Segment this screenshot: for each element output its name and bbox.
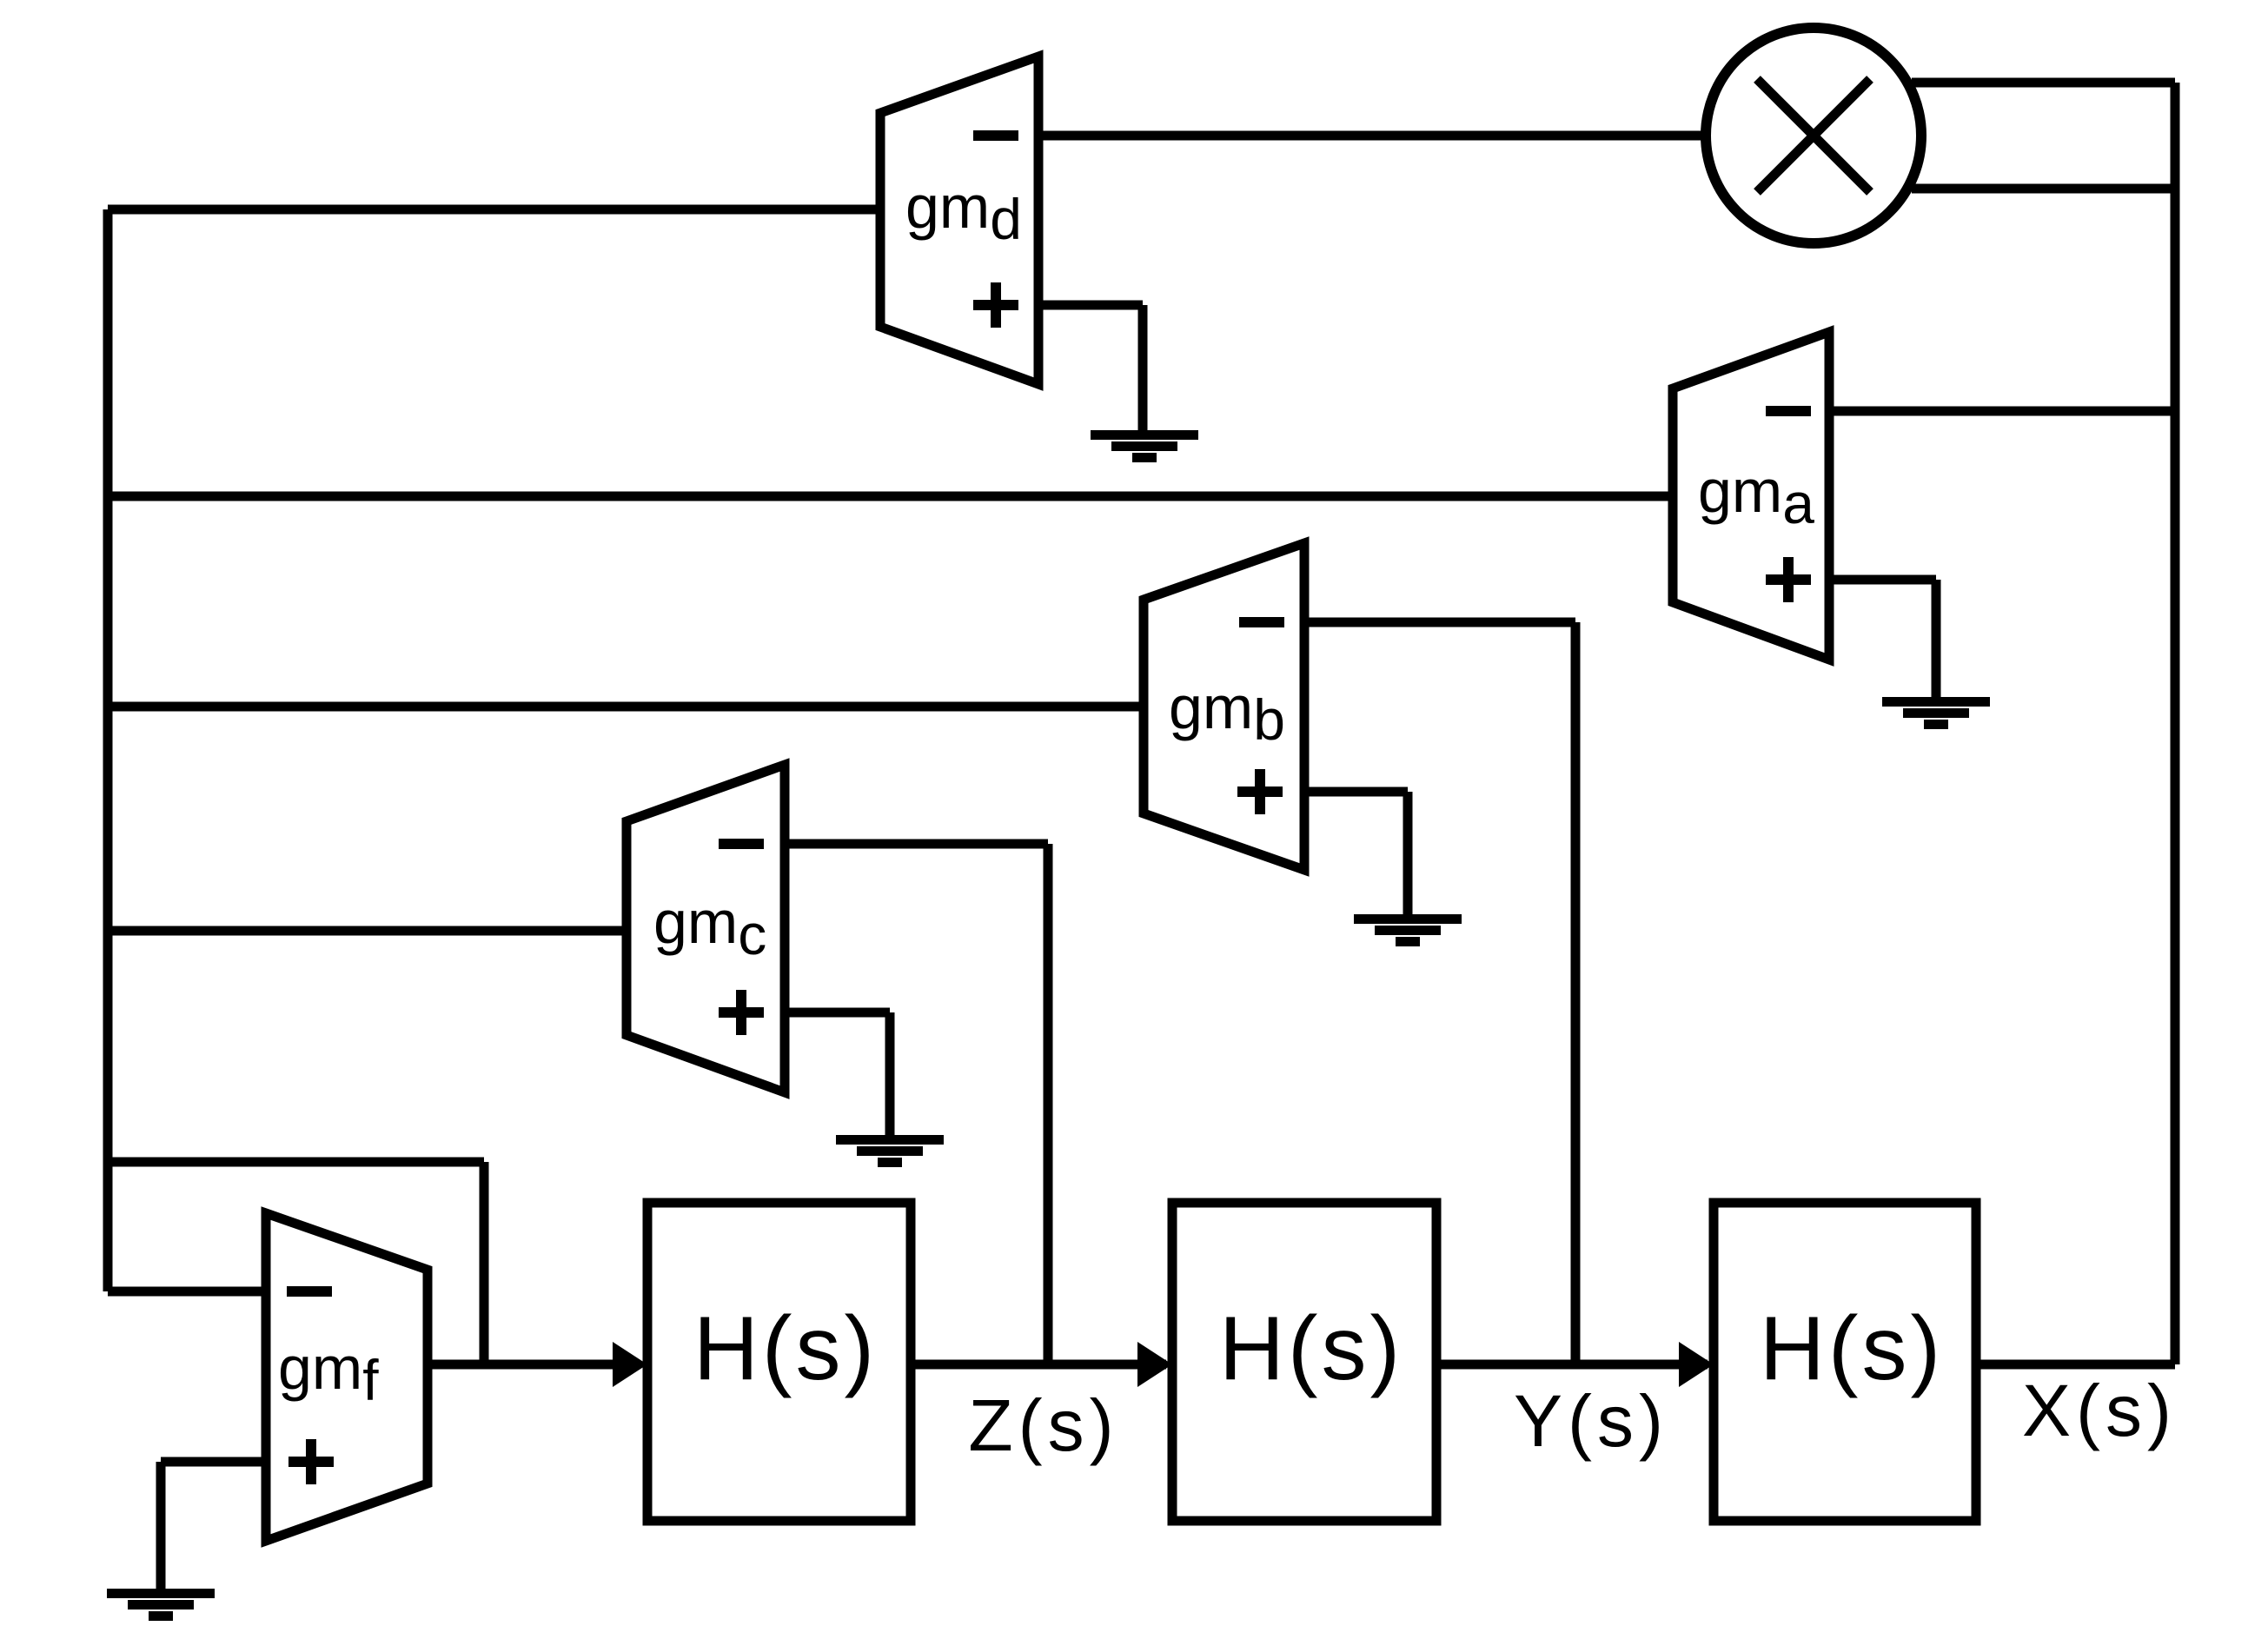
pin label minus of gm_c — [719, 839, 764, 849]
multiplier M1 circle — [1706, 28, 1921, 243]
pin label minus of gm_b — [1239, 617, 1284, 627]
wire: gm_c minus input horizontal — [785, 840, 1048, 849]
wire: gm_f plus ground stem — [156, 1462, 166, 1589]
wire: bus to gm_f minus input — [108, 1287, 266, 1297]
wire: gm_f output to H(s)1 — [428, 1360, 619, 1370]
svg-text:Z(s): Z(s) — [968, 1384, 1118, 1466]
op-amp OTA gm_d — [880, 56, 1038, 384]
wire: gm_b minus input horizontal — [1304, 618, 1575, 627]
wire: bus to gm_a output — [108, 492, 1673, 501]
svg-text:X(s): X(s) — [2022, 1370, 2177, 1451]
wire: gm_c plus ground stem — [885, 1012, 895, 1135]
arrowhead into H(s)2 — [1137, 1342, 1172, 1387]
pin label plus of gm_c — [719, 990, 764, 1035]
wire: H(s)3 output X(s) to right bus — [1976, 1360, 2175, 1370]
wire: gm_d minus input from multiplier — [1038, 131, 1708, 141]
wire: H(s)1 output Z(s) to H(s)2 — [911, 1360, 1166, 1370]
svg-text:H(s): H(s) — [1219, 1298, 1403, 1399]
wire: gm_c minus vertical to node Z(s) — [1044, 844, 1053, 1364]
op-amp OTA gm_f — [266, 1213, 428, 1541]
pin label plus of gm_f — [288, 1439, 334, 1484]
op-amp OTA gm_c — [627, 765, 785, 1092]
block H(s) second — [1172, 1203, 1436, 1521]
pin label minus of gm_a — [1766, 406, 1811, 416]
wire: H(s)2 output Y(s) to H(s)3 — [1436, 1360, 1708, 1370]
svg-text:H(s): H(s) — [1760, 1298, 1944, 1399]
wire: bus feedback horizontal — [108, 1158, 484, 1167]
wire: bus to gm_b output — [108, 702, 1144, 712]
ground (gm_a plus) — [1882, 697, 1990, 729]
wire: gm_c plus horizontal — [785, 1008, 890, 1018]
op-amp OTA gm_b — [1144, 543, 1304, 870]
svg-text:Y(s): Y(s) — [1514, 1380, 1668, 1462]
pin label plus of gm_a — [1766, 557, 1811, 602]
wire: gm_f plus input — [161, 1457, 266, 1467]
wire: gm_a minus input from right bus — [1829, 407, 2175, 416]
block H(s) third — [1714, 1203, 1976, 1521]
wire: bus to gm_d output — [108, 205, 880, 215]
wire: left summing bus vertical — [103, 209, 113, 1291]
multiplier M1 cross — [1757, 79, 1870, 192]
ground (gm_f plus) — [107, 1589, 215, 1621]
wire: gm_d plus horizontal — [1038, 301, 1143, 310]
wire: feedback vertical to H(s)1 input node — [480, 1162, 489, 1364]
wire: gm_d plus ground stem — [1138, 305, 1148, 430]
block H(s) first — [647, 1203, 911, 1521]
arrowhead into H(s)1 — [613, 1342, 647, 1387]
wire: gm_a plus ground stem — [1932, 580, 1941, 697]
wire: multiplier to right bus top — [1912, 78, 2175, 88]
wire: bus to gm_c output — [108, 926, 627, 936]
pin label minus of gm_f — [287, 1286, 332, 1297]
arrowhead into H(s)3 — [1679, 1342, 1714, 1387]
pin label plus of gm_d — [973, 282, 1018, 328]
wire: multiplier to right bus lower — [1912, 184, 2175, 194]
ground (gm_b plus) — [1354, 914, 1462, 946]
svg-text:H(s): H(s) — [693, 1298, 878, 1399]
pin label minus of gm_d — [973, 130, 1018, 141]
ground (gm_d plus) — [1091, 430, 1198, 462]
wire: gm_b minus vertical to node Y(s) — [1571, 622, 1581, 1364]
op-amp OTA gm_a — [1673, 332, 1829, 660]
wire: gm_b plus horizontal — [1304, 787, 1408, 797]
pin label plus of gm_b — [1237, 769, 1283, 814]
wire: gm_b plus ground stem — [1403, 792, 1413, 914]
ground (gm_c plus) — [836, 1135, 944, 1167]
wire: right feedback bus vertical X(s) — [2171, 83, 2180, 1364]
wire: gm_a plus horizontal — [1829, 575, 1936, 585]
